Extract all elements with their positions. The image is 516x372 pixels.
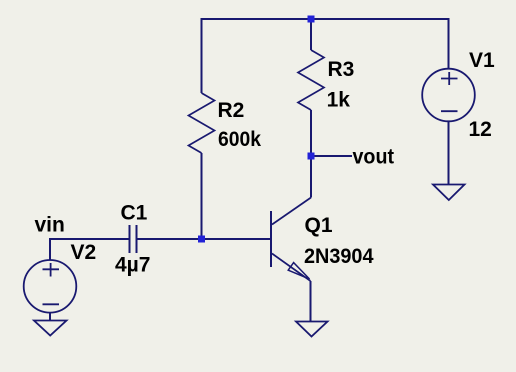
transistor Q1 emitter slant — [272, 254, 311, 282]
svg-text:C1: C1 — [121, 202, 148, 225]
ground for V1 — [433, 185, 465, 201]
wire vout stub — [311, 155, 352, 157]
svg-text:1k: 1k — [327, 89, 351, 112]
junction node base / R2 / C1 — [198, 236, 205, 243]
svg-text:12: 12 — [469, 118, 492, 141]
svg-text:R2: R2 — [218, 99, 245, 122]
capacitor C1 — [130, 225, 137, 253]
resistor R2 — [189, 93, 215, 153]
wire input to C1 — [50, 238, 130, 240]
wire R2 top lead — [201, 18, 203, 93]
svg-text:Q1: Q1 — [305, 214, 333, 237]
svg-text:V2: V2 — [71, 241, 97, 264]
transistor Q1 emitter arrow — [288, 263, 309, 279]
svg-text:vin: vin — [35, 214, 65, 237]
wire V1 to ground — [448, 121, 450, 184]
resistor R3 — [298, 50, 324, 110]
wire V2 top lead — [49, 238, 51, 260]
voltage source V2 — [24, 260, 77, 313]
transistor Q1 collector slant — [272, 198, 311, 225]
svg-text:R3: R3 — [328, 58, 355, 81]
transistor Q1 base bar — [270, 211, 272, 267]
wire R2 bottom lead — [201, 153, 203, 239]
ground for Q1 emitter — [296, 322, 328, 337]
ground for V2 — [34, 321, 67, 336]
wire V1 top lead — [448, 18, 450, 69]
wire emitter to ground — [310, 281, 312, 321]
svg-text:4µ7: 4µ7 — [115, 254, 150, 277]
wire R3 bottom lead — [310, 110, 312, 156]
svg-text:vout: vout — [353, 146, 395, 169]
wire top rail — [202, 18, 449, 20]
wire R3 top lead — [310, 19, 312, 50]
junction node at top rail / R3 — [308, 16, 315, 23]
wire C1 to base — [137, 238, 272, 240]
svg-text:2N3904: 2N3904 — [304, 245, 374, 268]
svg-text:V1: V1 — [469, 49, 495, 72]
wire V2 to ground — [49, 313, 51, 321]
wire collector lead — [310, 156, 312, 198]
voltage source V1 — [422, 69, 475, 122]
junction node vout — [308, 153, 315, 160]
svg-text:600k: 600k — [218, 128, 261, 151]
